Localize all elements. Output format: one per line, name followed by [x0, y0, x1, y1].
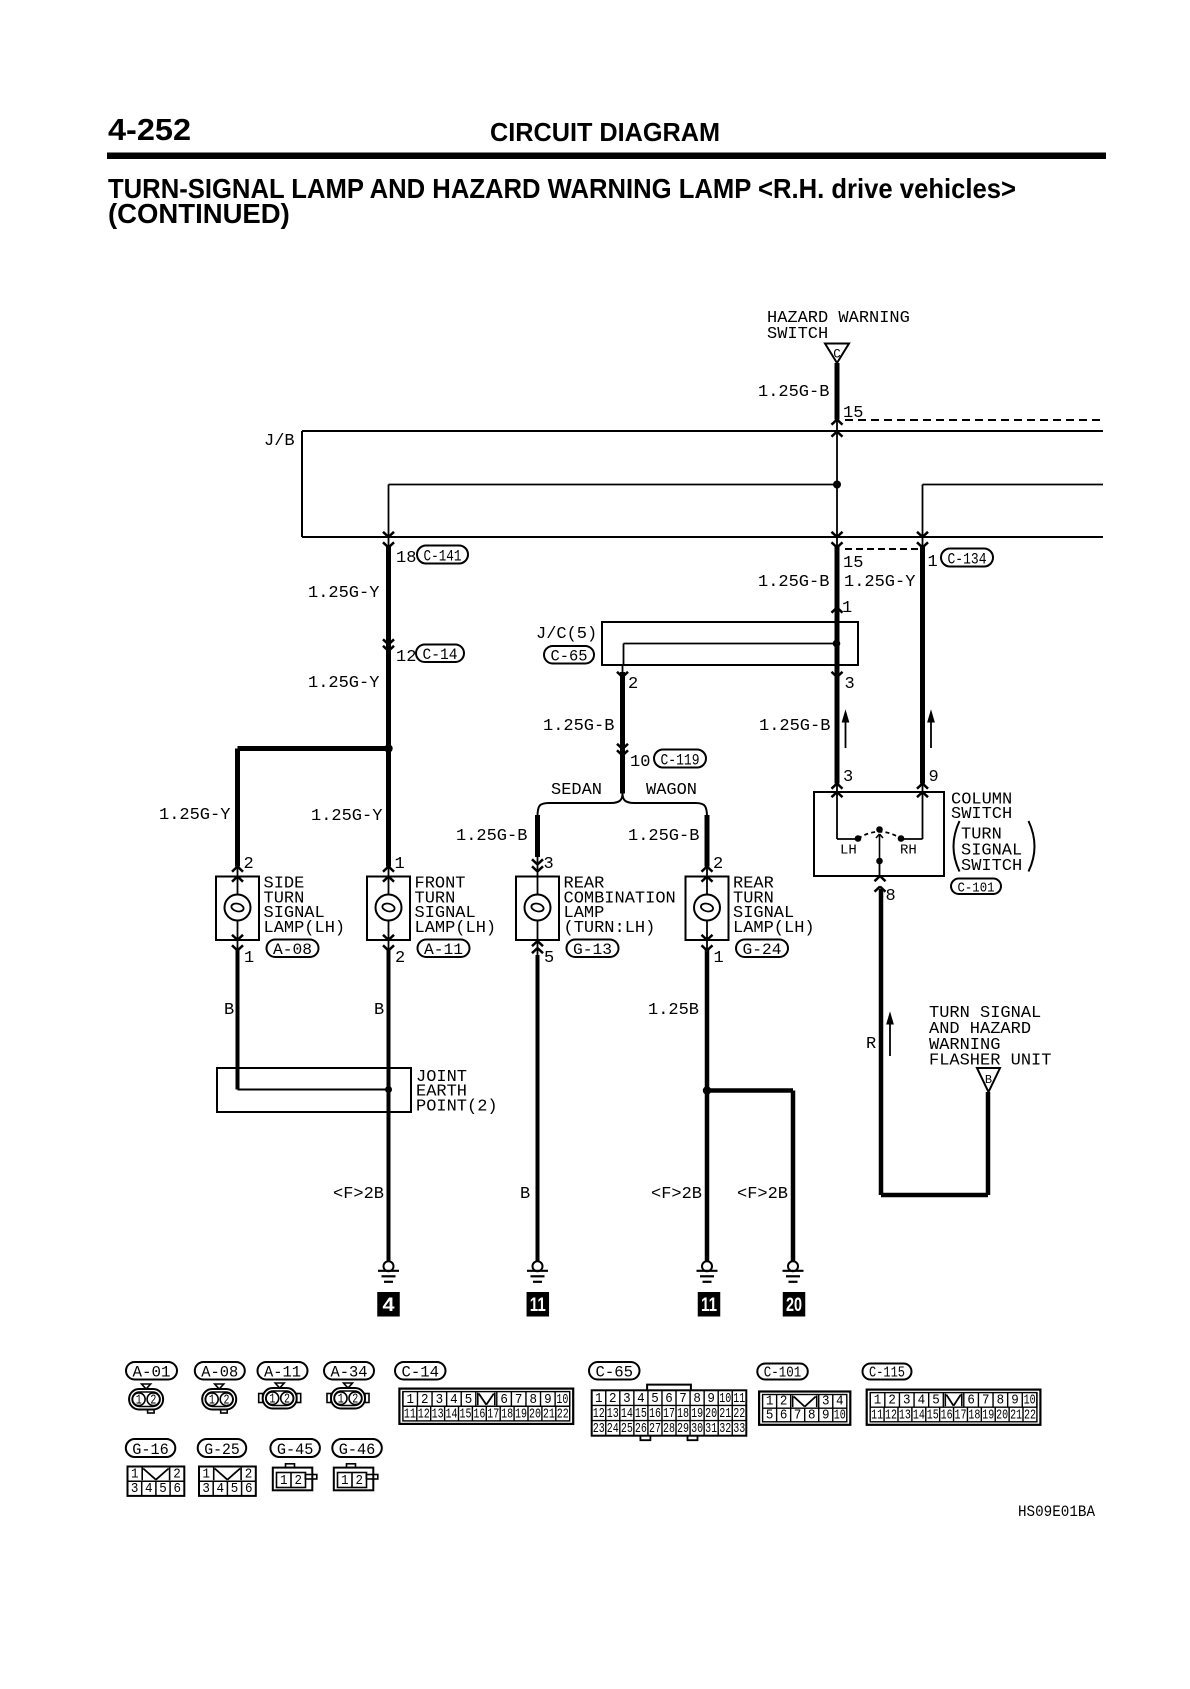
svg-text:G-25: G-25	[204, 1441, 240, 1459]
svg-text:27: 27	[649, 1422, 661, 1437]
svg-text:SWITCH: SWITCH	[767, 325, 828, 344]
svg-text:8: 8	[808, 1408, 816, 1423]
svg-text:26: 26	[635, 1422, 647, 1437]
svg-text:B: B	[374, 1001, 384, 1020]
svg-text:23: 23	[593, 1422, 605, 1437]
svg-text:6: 6	[245, 1482, 253, 1497]
svg-text:9: 9	[822, 1408, 830, 1423]
svg-text:24: 24	[607, 1422, 619, 1437]
svg-text:SEDAN: SEDAN	[551, 781, 602, 800]
svg-text:9: 9	[544, 1393, 552, 1408]
svg-text:LH: LH	[840, 843, 857, 859]
svg-text:22: 22	[733, 1407, 745, 1422]
svg-text:4: 4	[145, 1482, 153, 1497]
svg-text:1: 1	[280, 1474, 288, 1489]
svg-text:12: 12	[396, 648, 416, 667]
svg-text:19: 19	[982, 1408, 994, 1423]
svg-text:4: 4	[918, 1394, 926, 1409]
svg-text:12: 12	[418, 1407, 430, 1422]
svg-text:7: 7	[794, 1408, 802, 1423]
svg-text:2: 2	[356, 1474, 364, 1489]
svg-text:R: R	[866, 1035, 876, 1054]
svg-text:C-101: C-101	[958, 880, 995, 896]
svg-text:5: 5	[159, 1482, 167, 1497]
svg-text:(TURN:LH): (TURN:LH)	[564, 919, 656, 938]
svg-text:4: 4	[450, 1393, 458, 1408]
svg-text:HS09E01BA: HS09E01BA	[1018, 1503, 1095, 1521]
svg-text:33: 33	[733, 1422, 745, 1437]
svg-text:5: 5	[465, 1393, 473, 1408]
svg-text:C-65: C-65	[551, 648, 588, 666]
svg-text:C-65: C-65	[596, 1364, 634, 1382]
svg-text:29: 29	[677, 1422, 689, 1437]
svg-text:12: 12	[885, 1408, 897, 1423]
svg-text:10: 10	[719, 1392, 731, 1407]
svg-text:1: 1	[714, 949, 724, 968]
svg-text:3: 3	[436, 1393, 444, 1408]
svg-text:14: 14	[446, 1407, 458, 1422]
svg-text:13: 13	[899, 1408, 911, 1423]
svg-text:8: 8	[886, 887, 896, 906]
svg-text:1.25G-Y: 1.25G-Y	[308, 674, 379, 693]
svg-text:1.25G-B: 1.25G-B	[759, 717, 830, 736]
svg-text:13: 13	[607, 1407, 619, 1422]
svg-text:20: 20	[529, 1407, 541, 1422]
svg-text:15: 15	[843, 554, 863, 573]
svg-text:G-45: G-45	[277, 1441, 314, 1459]
svg-text:A-34: A-34	[331, 1364, 368, 1382]
svg-text:32: 32	[719, 1422, 731, 1437]
svg-text:6: 6	[173, 1482, 181, 1497]
svg-text:1.25G-B: 1.25G-B	[758, 383, 829, 402]
svg-text:18: 18	[968, 1408, 980, 1423]
svg-text:C-119: C-119	[661, 751, 700, 769]
svg-text:1: 1	[928, 553, 938, 572]
svg-text:21: 21	[1010, 1408, 1022, 1423]
svg-text:3: 3	[623, 1392, 631, 1407]
svg-text:5: 5	[651, 1392, 659, 1407]
svg-text:18: 18	[677, 1407, 689, 1422]
svg-text:21: 21	[543, 1407, 555, 1422]
svg-text:2: 2	[295, 1474, 303, 1489]
svg-text:1.25G-B: 1.25G-B	[543, 717, 614, 736]
svg-text:3: 3	[843, 768, 853, 787]
svg-text:1: 1	[131, 1468, 139, 1483]
svg-text:J/B: J/B	[264, 432, 295, 451]
svg-text:6: 6	[780, 1408, 788, 1423]
svg-text:3: 3	[202, 1482, 210, 1497]
svg-text:2: 2	[245, 1468, 253, 1483]
svg-text:18: 18	[501, 1407, 513, 1422]
svg-text:10: 10	[556, 1393, 568, 1408]
svg-text:5: 5	[231, 1482, 239, 1497]
svg-text:B: B	[985, 1073, 992, 1087]
svg-text:1: 1	[136, 1394, 142, 1409]
svg-text:8: 8	[530, 1393, 538, 1408]
svg-text:LAMP(LH): LAMP(LH)	[733, 919, 815, 938]
svg-text:13: 13	[432, 1407, 444, 1422]
svg-text:1: 1	[209, 1394, 215, 1409]
svg-text:1.25G-B: 1.25G-B	[456, 827, 527, 846]
svg-text:C-115: C-115	[869, 1366, 905, 1382]
svg-text:19: 19	[515, 1407, 527, 1422]
svg-text:4: 4	[217, 1482, 225, 1497]
svg-text:2: 2	[224, 1394, 230, 1409]
svg-text:POINT(2): POINT(2)	[416, 1097, 498, 1116]
svg-text:2: 2	[352, 1393, 358, 1408]
svg-text:1: 1	[842, 599, 852, 618]
svg-text:11: 11	[404, 1407, 416, 1422]
svg-text:SWITCH: SWITCH	[961, 857, 1022, 876]
svg-text:2: 2	[395, 949, 405, 968]
svg-text:1: 1	[874, 1394, 882, 1409]
svg-text:7: 7	[982, 1394, 990, 1409]
svg-text:22: 22	[1024, 1408, 1036, 1423]
svg-text:2: 2	[609, 1392, 617, 1407]
svg-text:C-141: C-141	[424, 547, 462, 565]
svg-text:11: 11	[530, 1295, 546, 1316]
svg-text:1.25G-B: 1.25G-B	[758, 573, 829, 592]
svg-text:<F>2B: <F>2B	[651, 1185, 702, 1204]
svg-text:G-24: G-24	[743, 941, 782, 959]
svg-text:8: 8	[997, 1394, 1005, 1409]
svg-text:5: 5	[544, 949, 554, 968]
svg-text:3: 3	[131, 1482, 139, 1497]
svg-text:3: 3	[903, 1394, 911, 1409]
svg-text:C-134: C-134	[948, 550, 987, 568]
svg-text:C-14: C-14	[402, 1364, 440, 1382]
svg-text:G-16: G-16	[132, 1441, 169, 1459]
svg-text:A-08: A-08	[273, 941, 312, 959]
svg-text:2: 2	[244, 855, 254, 874]
svg-text:22: 22	[557, 1407, 569, 1422]
svg-text:1: 1	[395, 855, 405, 874]
svg-text:8: 8	[693, 1392, 701, 1407]
svg-text:C-14: C-14	[423, 646, 458, 664]
svg-text:3: 3	[845, 675, 855, 694]
svg-text:2: 2	[628, 675, 638, 694]
svg-text:CIRCUIT DIAGRAM: CIRCUIT DIAGRAM	[490, 117, 720, 147]
svg-text:1: 1	[595, 1392, 603, 1407]
svg-text:16: 16	[473, 1407, 485, 1422]
svg-text:1.25G-Y: 1.25G-Y	[311, 807, 382, 826]
svg-text:15: 15	[927, 1408, 939, 1423]
svg-text:10: 10	[630, 753, 650, 772]
svg-text:A-08: A-08	[201, 1364, 238, 1382]
svg-text:10: 10	[834, 1408, 846, 1423]
svg-text:2: 2	[173, 1468, 181, 1483]
svg-text:2: 2	[421, 1393, 429, 1408]
svg-text:16: 16	[941, 1408, 953, 1423]
svg-text:20: 20	[996, 1408, 1008, 1423]
svg-text:<F>2B: <F>2B	[737, 1185, 788, 1204]
svg-text:LAMP(LH): LAMP(LH)	[415, 919, 497, 938]
svg-text:18: 18	[396, 549, 416, 568]
svg-text:4: 4	[383, 1295, 395, 1316]
svg-text:B: B	[520, 1185, 530, 1204]
svg-text:14: 14	[621, 1407, 633, 1422]
svg-text:FLASHER UNIT: FLASHER UNIT	[929, 1052, 1051, 1071]
svg-text:J/C(5): J/C(5)	[536, 625, 597, 644]
svg-text:17: 17	[954, 1408, 966, 1423]
svg-text:12: 12	[593, 1407, 605, 1422]
svg-text:G-13: G-13	[573, 941, 612, 959]
svg-text:9: 9	[1011, 1394, 1019, 1409]
svg-text:<F>2B: <F>2B	[333, 1185, 384, 1204]
svg-text:28: 28	[663, 1422, 675, 1437]
svg-text:21: 21	[719, 1407, 731, 1422]
svg-text:1: 1	[203, 1468, 211, 1483]
svg-text:SWITCH: SWITCH	[951, 805, 1012, 824]
svg-text:1: 1	[341, 1474, 349, 1489]
svg-text:A-01: A-01	[133, 1364, 171, 1382]
svg-text:6: 6	[665, 1392, 673, 1407]
svg-text:9: 9	[707, 1392, 715, 1407]
svg-text:20: 20	[705, 1407, 717, 1422]
svg-text:C: C	[833, 348, 841, 362]
svg-text:B: B	[224, 1001, 234, 1020]
svg-text:1: 1	[244, 949, 254, 968]
svg-text:WAGON: WAGON	[646, 781, 697, 800]
svg-text:11: 11	[871, 1408, 883, 1423]
svg-text:30: 30	[691, 1422, 703, 1437]
svg-text:25: 25	[621, 1422, 633, 1437]
svg-text:5: 5	[766, 1408, 774, 1423]
svg-text:1.25B: 1.25B	[648, 1001, 699, 1020]
svg-text:1: 1	[406, 1393, 414, 1408]
svg-text:10: 10	[1024, 1394, 1036, 1409]
svg-text:1.25G-Y: 1.25G-Y	[159, 806, 230, 825]
svg-text:1.25G-B: 1.25G-B	[628, 827, 699, 846]
svg-text:20: 20	[786, 1295, 802, 1316]
svg-text:19: 19	[691, 1407, 703, 1422]
svg-text:7: 7	[679, 1392, 687, 1407]
svg-text:2: 2	[888, 1394, 896, 1409]
svg-text:1.25G-Y: 1.25G-Y	[844, 573, 915, 592]
svg-text:31: 31	[705, 1422, 717, 1437]
svg-text:11: 11	[733, 1392, 745, 1407]
svg-text:11: 11	[701, 1295, 717, 1316]
svg-text:16: 16	[649, 1407, 661, 1422]
svg-text:5: 5	[932, 1394, 940, 1409]
svg-text:7: 7	[515, 1393, 523, 1408]
svg-text:2: 2	[150, 1394, 156, 1409]
svg-text:6: 6	[500, 1393, 508, 1408]
svg-text:C-101: C-101	[764, 1366, 802, 1382]
svg-text:14: 14	[913, 1408, 925, 1423]
svg-text:LAMP(LH): LAMP(LH)	[264, 919, 346, 938]
svg-text:15: 15	[635, 1407, 647, 1422]
svg-text:1.25G-Y: 1.25G-Y	[308, 584, 379, 603]
svg-text:2: 2	[284, 1393, 290, 1408]
svg-text:RH: RH	[900, 843, 917, 859]
svg-text:4: 4	[637, 1392, 645, 1407]
svg-text:G-46: G-46	[339, 1441, 376, 1459]
svg-text:A-11: A-11	[264, 1364, 301, 1382]
svg-text:6: 6	[967, 1394, 975, 1409]
svg-text:17: 17	[663, 1407, 675, 1422]
svg-text:15: 15	[459, 1407, 471, 1422]
svg-text:1: 1	[338, 1393, 344, 1408]
svg-text:A-11: A-11	[424, 941, 463, 959]
svg-text:3: 3	[544, 855, 554, 874]
svg-text:9: 9	[929, 768, 939, 787]
svg-text:17: 17	[487, 1407, 499, 1422]
svg-text:4-252: 4-252	[108, 112, 191, 147]
svg-text:2: 2	[713, 855, 723, 874]
svg-text:1: 1	[269, 1393, 275, 1408]
svg-text:(CONTINUED): (CONTINUED)	[108, 198, 290, 229]
